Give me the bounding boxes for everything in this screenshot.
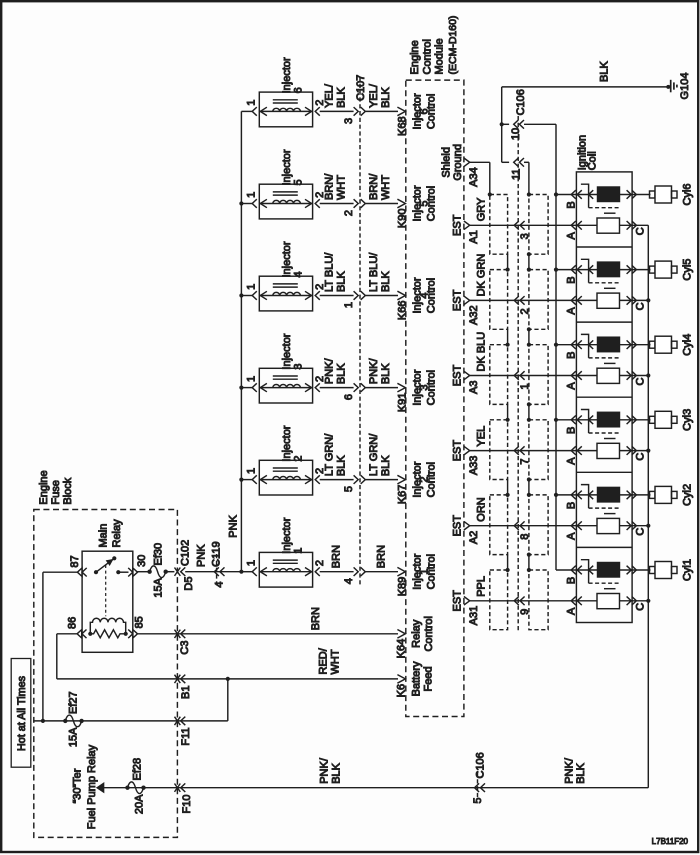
svg-text:Injector: Injector bbox=[281, 517, 293, 553]
svg-text:Cyl1: Cyl1 bbox=[682, 559, 694, 581]
wire PNK/BLK C107 to ECM bbox=[366, 357, 399, 387]
connector F11 at fuse block edge bbox=[175, 717, 193, 746]
svg-text:A32: A32 bbox=[468, 305, 480, 325]
svg-text:Feed: Feed bbox=[423, 666, 435, 691]
svg-text:B1: B1 bbox=[180, 686, 192, 699]
svg-text:K66: K66 bbox=[397, 301, 409, 321]
connector B1 at fuse block edge bbox=[175, 675, 193, 699]
svg-text:BLK: BLK bbox=[336, 363, 348, 384]
svg-text:“30”Ter: “30”Ter bbox=[72, 768, 84, 803]
svg-text:Injector: Injector bbox=[281, 333, 293, 369]
svg-text:Cyl6: Cyl6 bbox=[682, 183, 694, 205]
wire pin 11 shield drain bbox=[528, 162, 530, 194]
connector C106 pin 7 bbox=[514, 446, 531, 464]
node C rail junction bbox=[646, 524, 650, 528]
shield (ECM side) EST row 3 bbox=[490, 345, 508, 405]
svg-text:A: A bbox=[566, 382, 578, 390]
svg-text:EST: EST bbox=[452, 365, 464, 387]
svg-text:BLK: BLK bbox=[380, 271, 392, 292]
svg-text:C: C bbox=[635, 377, 647, 385]
svg-text:BLK: BLK bbox=[380, 86, 392, 107]
node C rail junction bbox=[646, 373, 650, 377]
svg-text:Battery: Battery bbox=[411, 661, 423, 696]
figure number L7B11F20 bbox=[652, 837, 689, 846]
wire YEL EST A33 to ignition coil bbox=[470, 426, 649, 451]
svg-text:Ef27: Ef27 bbox=[68, 691, 80, 714]
connector C107 pin 4 bbox=[343, 567, 365, 584]
svg-text:B: B bbox=[566, 577, 578, 584]
svg-text:Relay: Relay bbox=[411, 619, 423, 648]
terminal 30 bbox=[116, 555, 148, 577]
node injector rail junction row 3 bbox=[239, 386, 243, 390]
terminal 86 bbox=[67, 617, 87, 638]
svg-text:Injector: Injector bbox=[281, 241, 293, 277]
svg-text:1: 1 bbox=[245, 284, 257, 290]
connector C107 pin 2 bbox=[343, 199, 365, 216]
coil unit divider bbox=[576, 396, 632, 398]
svg-text:C: C bbox=[635, 227, 647, 235]
svg-text:Injector: Injector bbox=[281, 425, 293, 461]
svg-text:BLK: BLK bbox=[336, 86, 348, 107]
ECM pin A3 EST bbox=[452, 365, 481, 394]
svg-text:Coil: Coil bbox=[587, 151, 599, 170]
svg-text:BLK: BLK bbox=[336, 271, 348, 292]
svg-text:BLK: BLK bbox=[336, 455, 348, 476]
node C rail junction bbox=[646, 298, 650, 302]
injector 2 bbox=[241, 425, 326, 495]
svg-text:85: 85 bbox=[133, 616, 145, 628]
svg-text:BRN: BRN bbox=[376, 545, 388, 568]
shield chain jumpers bbox=[506, 252, 532, 272]
svg-text:6: 6 bbox=[343, 394, 355, 400]
wire 86 to B1 row bbox=[57, 634, 77, 679]
label Engine Control Module (ECM-D160) bbox=[409, 16, 459, 75]
spark plug Cyl2 bbox=[650, 484, 694, 506]
terminal 87 bbox=[69, 555, 87, 576]
svg-text:15A: 15A bbox=[68, 727, 80, 747]
svg-text:Control: Control bbox=[426, 370, 438, 405]
svg-text:GRY: GRY bbox=[476, 197, 488, 221]
svg-text:YEL/: YEL/ bbox=[368, 83, 380, 108]
wire PNK D5 to C119 bbox=[185, 544, 241, 572]
ignition coil primary Cyl3 (pin B) bbox=[556, 410, 651, 439]
wire BRN injector 1 to C107 bbox=[320, 545, 354, 572]
svg-text:Injector: Injector bbox=[281, 57, 293, 93]
ECM pin A31 EST bbox=[452, 590, 481, 626]
injector 6 bbox=[241, 57, 326, 127]
svg-text:L7B11F20: L7B11F20 bbox=[652, 837, 689, 846]
svg-text:PNK: PNK bbox=[195, 544, 207, 567]
ECM pin A1 EST bbox=[452, 214, 481, 243]
ECM pin K90 Injector 5 Control bbox=[397, 185, 438, 228]
ECM pin K6 Battery Feed bbox=[396, 661, 435, 697]
svg-text:K67: K67 bbox=[397, 485, 409, 505]
shield chain jumpers bbox=[506, 553, 532, 573]
spark plug Cyl1 bbox=[650, 559, 694, 581]
svg-text:30: 30 bbox=[136, 555, 148, 567]
svg-text:D5: D5 bbox=[183, 577, 195, 591]
svg-text:2: 2 bbox=[343, 210, 355, 216]
connector C107 pin 1 bbox=[343, 291, 365, 308]
node ground rail junction Cyl2 bbox=[554, 493, 558, 497]
svg-text:B: B bbox=[566, 502, 578, 509]
svg-text:K6: K6 bbox=[396, 684, 408, 697]
connector C107 pin 6 bbox=[343, 383, 365, 400]
svg-text:Engine: Engine bbox=[38, 470, 50, 504]
wire 85 to C3 / relay control bbox=[138, 633, 399, 635]
svg-text:C3: C3 bbox=[179, 641, 191, 655]
node injector rail junction row 5 bbox=[239, 201, 243, 205]
svg-text:YEL/: YEL/ bbox=[324, 83, 336, 108]
shield chain jumpers bbox=[506, 327, 532, 347]
ignition coil secondary Cyl4 (pin A to C) bbox=[566, 368, 647, 389]
svg-text:LT BLU/: LT BLU/ bbox=[368, 252, 380, 292]
wire DK BLU EST A3 to ignition coil bbox=[470, 332, 649, 376]
wire RED/WHT B1 row to K6 bbox=[57, 677, 398, 681]
svg-text:BRN: BRN bbox=[331, 545, 343, 568]
svg-text:C102: C102 bbox=[180, 540, 192, 566]
svg-text:Cyl3: Cyl3 bbox=[682, 409, 694, 431]
coil unit divider bbox=[576, 321, 632, 323]
wire F11 riser to B1 row bbox=[227, 679, 229, 721]
connector C119 pin 4 bbox=[211, 541, 226, 588]
svg-text:Cyl5: Cyl5 bbox=[682, 259, 694, 281]
svg-text:F10: F10 bbox=[181, 795, 193, 814]
wire GRY EST A1 to ignition coil bbox=[470, 197, 649, 225]
svg-text:B: B bbox=[566, 352, 578, 359]
node ground rail junction Cyl6 bbox=[554, 192, 558, 196]
coil unit divider bbox=[576, 471, 632, 473]
connector C3 at fuse block edge bbox=[175, 630, 192, 655]
label BRN relay control bbox=[310, 607, 322, 630]
wire LT GRN/BLK C107 to ECM bbox=[366, 433, 399, 480]
shield chain jumpers bbox=[506, 402, 532, 422]
shield chain jumpers bbox=[506, 477, 532, 497]
svg-text:4: 4 bbox=[343, 578, 355, 584]
relay coil and resistor bbox=[88, 618, 128, 638]
svg-text:C119: C119 bbox=[211, 541, 223, 566]
wire DK GRN EST A32 to ignition coil bbox=[470, 254, 649, 301]
spark plug Cyl5 bbox=[650, 259, 694, 281]
ignition coil secondary Cyl1 (pin A to C) bbox=[566, 594, 647, 615]
ignition coil primary Cyl1 (pin B) bbox=[556, 560, 651, 589]
svg-text:Cyl2: Cyl2 bbox=[682, 484, 694, 506]
svg-text:K90: K90 bbox=[397, 209, 409, 229]
svg-text:DK GRN: DK GRN bbox=[476, 254, 488, 297]
fuse Ef27 15A bbox=[63, 691, 84, 747]
ignition coil primary Cyl4 (pin B) bbox=[556, 334, 651, 363]
svg-text:BLK: BLK bbox=[380, 363, 392, 384]
svg-text:EST: EST bbox=[452, 214, 464, 236]
svg-text:EST: EST bbox=[452, 440, 464, 462]
wire LT GRN/BLK injector 2 to C107 bbox=[320, 433, 354, 480]
label Engine Fuse Block bbox=[38, 470, 74, 504]
ignition coil secondary Cyl5 (pin A to C) bbox=[566, 293, 647, 314]
connector C106 pin 10 bbox=[502, 89, 556, 140]
wire YEL/BLK C107 to ECM bbox=[366, 83, 399, 111]
svg-text:11: 11 bbox=[510, 169, 522, 180]
label RED/WHT bbox=[318, 647, 342, 674]
spark plug Cyl6 bbox=[650, 183, 694, 205]
node injector rail junction row 4 bbox=[239, 293, 243, 297]
wire coil C rail to PNK/BLK feed bbox=[647, 225, 649, 787]
svg-text:K89: K89 bbox=[397, 577, 409, 597]
shield (coil side) EST row 4 bbox=[529, 420, 548, 480]
ground G104 bbox=[666, 73, 691, 100]
svg-text:A34: A34 bbox=[468, 167, 480, 187]
svg-text:C: C bbox=[635, 453, 647, 461]
svg-text:F11: F11 bbox=[180, 728, 192, 746]
svg-text:Main: Main bbox=[98, 524, 110, 548]
svg-text:Relay: Relay bbox=[111, 519, 123, 548]
node injector rail junction row 2 bbox=[239, 478, 243, 482]
svg-text:A: A bbox=[566, 231, 578, 239]
svg-text:Control: Control bbox=[426, 94, 438, 129]
svg-text:BRN: BRN bbox=[310, 607, 322, 630]
coil unit divider bbox=[576, 246, 632, 248]
svg-text:87: 87 bbox=[69, 555, 81, 567]
node injector rail junction row 1 bbox=[239, 570, 243, 574]
svg-text:2: 2 bbox=[293, 455, 305, 461]
spark plug Cyl4 bbox=[650, 334, 694, 356]
connector C106 pin 1 bbox=[514, 371, 531, 389]
svg-text:20A: 20A bbox=[134, 794, 146, 814]
svg-text:RED/: RED/ bbox=[318, 647, 330, 674]
svg-text:1: 1 bbox=[245, 192, 257, 198]
svg-text:DK BLU: DK BLU bbox=[476, 332, 488, 372]
label Ignition Coil bbox=[577, 135, 599, 170]
svg-text:B: B bbox=[566, 201, 578, 208]
wire hot feed to F11 (row y=720.9) bbox=[33, 720, 228, 722]
svg-text:A2: A2 bbox=[468, 531, 480, 544]
svg-text:PNK: PNK bbox=[228, 514, 240, 537]
node ground rail junction Cyl3 bbox=[554, 418, 558, 422]
wire branch up to relay terminal 87 bbox=[43, 572, 78, 721]
svg-text:PPL: PPL bbox=[476, 576, 488, 597]
svg-text:(ECM-D160): (ECM-D160) bbox=[447, 16, 459, 75]
connector C106 pin 11 bbox=[502, 158, 529, 180]
label PNK at injector rail bbox=[228, 514, 240, 537]
Engine Fuse Block dashed box bbox=[34, 510, 178, 838]
svg-text:BLK: BLK bbox=[599, 61, 611, 82]
svg-text:5: 5 bbox=[343, 486, 355, 492]
connector line C107 bbox=[359, 77, 361, 585]
ECM pin K89 Injector 1 Control bbox=[397, 553, 438, 596]
svg-text:15A: 15A bbox=[153, 577, 165, 597]
connector C107 pin 3 bbox=[343, 75, 367, 124]
svg-text:Hot at All Times: Hot at All Times bbox=[16, 675, 28, 751]
svg-text:Control: Control bbox=[426, 554, 438, 589]
svg-text:EST: EST bbox=[452, 289, 464, 311]
svg-text:YEL: YEL bbox=[476, 426, 488, 447]
svg-text:1: 1 bbox=[293, 548, 305, 554]
svg-text:K91: K91 bbox=[397, 393, 409, 413]
svg-text:LT GRN/: LT GRN/ bbox=[324, 433, 336, 476]
svg-text:WHT: WHT bbox=[336, 175, 348, 200]
shield (coil side) EST row 6 bbox=[529, 570, 548, 630]
svg-text:Module: Module bbox=[434, 38, 446, 74]
ECM pin A33 EST bbox=[452, 440, 481, 476]
wire BRN C107 to ECM bbox=[366, 545, 399, 572]
connector C107 pin 5 bbox=[343, 475, 365, 492]
svg-text:A: A bbox=[566, 607, 578, 615]
label Main Relay bbox=[98, 519, 124, 548]
svg-text:C: C bbox=[635, 528, 647, 536]
svg-text:Ef28: Ef28 bbox=[131, 758, 143, 781]
svg-text:3: 3 bbox=[343, 118, 355, 124]
node BLK junction bbox=[500, 122, 504, 126]
svg-text:C: C bbox=[635, 603, 647, 611]
svg-text:PNK/: PNK/ bbox=[324, 357, 336, 384]
node ground rail junction Cyl4 bbox=[554, 343, 558, 347]
svg-text:G104: G104 bbox=[679, 73, 691, 100]
shield (ECM side) EST row 5 bbox=[490, 495, 508, 555]
ECM pin K68 Injector 6 Control bbox=[397, 93, 438, 136]
svg-text:A33: A33 bbox=[468, 456, 480, 476]
ignition coil secondary Cyl3 (pin A to C) bbox=[566, 443, 647, 464]
svg-text:2: 2 bbox=[314, 560, 326, 566]
svg-text:B: B bbox=[566, 276, 578, 283]
shield (ECM side) EST row 4 bbox=[490, 420, 508, 480]
node ground rail junction Cyl5 bbox=[554, 268, 558, 272]
connector line C106 bbox=[517, 116, 519, 631]
node C rail junction bbox=[646, 599, 650, 603]
ECM pin K91 Injector 3 Control bbox=[397, 369, 438, 412]
svg-text:Control: Control bbox=[423, 616, 435, 651]
svg-text:BRN/: BRN/ bbox=[368, 173, 380, 200]
svg-text:5: 5 bbox=[293, 179, 305, 185]
wire PPL EST A31 to ignition coil bbox=[470, 576, 649, 601]
svg-text:BLK: BLK bbox=[331, 762, 343, 783]
node shield drain connections bbox=[488, 192, 531, 196]
svg-text:WHT: WHT bbox=[380, 175, 392, 200]
terminal 85 bbox=[128, 616, 145, 638]
ECM dashed box (Engine Control Module) bbox=[406, 80, 464, 716]
svg-text:Shield: Shield bbox=[441, 147, 453, 178]
svg-text:A3: A3 bbox=[468, 381, 480, 394]
connector C106 pin 2 bbox=[514, 296, 531, 314]
wire LT BLU/BLK injector 4 to C107 bbox=[320, 252, 354, 296]
shield (ECM side) EST row 1 bbox=[490, 195, 508, 255]
node hot feed junction bbox=[41, 719, 45, 723]
ECM pin A34 Shield Ground bbox=[441, 144, 481, 187]
svg-text:1: 1 bbox=[245, 376, 257, 382]
svg-text:K68: K68 bbox=[397, 116, 409, 136]
ECM pin K67 Injector 2 Control bbox=[397, 461, 438, 504]
injector 3 bbox=[241, 333, 326, 403]
svg-text:A: A bbox=[566, 532, 578, 540]
svg-text:3: 3 bbox=[293, 363, 305, 369]
svg-text:A: A bbox=[566, 307, 578, 315]
Ignition Coil box bbox=[576, 172, 632, 623]
fuse Ef28 20A bbox=[125, 758, 145, 814]
node C rail junction bbox=[646, 449, 650, 453]
svg-text:Cyl4: Cyl4 bbox=[682, 334, 694, 356]
label "30"Ter Fuel Pump Relay bbox=[72, 744, 98, 829]
connector C106 pin 5 bbox=[472, 752, 487, 803]
svg-text:C: C bbox=[635, 302, 647, 310]
ECM pin A2 EST bbox=[452, 515, 481, 544]
ECM pin A32 EST bbox=[452, 289, 481, 325]
wire LT BLU/BLK C107 to ECM bbox=[366, 252, 399, 296]
svg-text:5: 5 bbox=[472, 798, 484, 804]
ignition coil primary Cyl6 (pin B) bbox=[556, 184, 651, 213]
svg-text:Control: Control bbox=[426, 186, 438, 221]
svg-text:Ground: Ground bbox=[452, 144, 464, 181]
coil unit divider bbox=[576, 546, 632, 548]
svg-text:Control: Control bbox=[422, 39, 434, 74]
ignition coil secondary Cyl6 (pin A to C) bbox=[566, 218, 647, 239]
svg-text:PNK/: PNK/ bbox=[564, 757, 576, 784]
svg-text:A: A bbox=[566, 457, 578, 465]
ignition coil secondary Cyl2 (pin A to C) bbox=[566, 518, 647, 539]
relay actuation dashed link bbox=[105, 565, 107, 616]
svg-text:Control: Control bbox=[426, 462, 438, 497]
spark plug Cyl3 bbox=[650, 409, 694, 431]
label box "Hot at All Times" bbox=[11, 659, 31, 768]
ignition coil primary Cyl2 (pin B) bbox=[556, 485, 651, 514]
connector D5 / C102 at fuse block edge bbox=[166, 540, 195, 591]
svg-text:LT GRN/: LT GRN/ bbox=[368, 433, 380, 476]
svg-text:10: 10 bbox=[510, 128, 522, 140]
wire BRN/WHT injector 5 to C107 bbox=[320, 173, 354, 204]
svg-text:EST: EST bbox=[452, 515, 464, 537]
terminal arrow from "30" Fuel Pump Relay bbox=[97, 783, 103, 792]
svg-text:PNK/: PNK/ bbox=[319, 757, 331, 784]
svg-text:K64: K64 bbox=[396, 639, 408, 659]
connector C106 pin 9 bbox=[514, 597, 531, 615]
connector C106 pin 3 bbox=[514, 221, 531, 239]
wire YEL/BLK injector 6 to C107 bbox=[320, 83, 354, 111]
svg-text:6: 6 bbox=[293, 87, 305, 93]
svg-text:B: B bbox=[566, 427, 578, 434]
svg-text:Control: Control bbox=[426, 278, 438, 313]
label PNK/BLK (right) bbox=[564, 757, 588, 784]
connector F10 at fuse block edge bbox=[175, 783, 194, 813]
svg-text:1: 1 bbox=[343, 302, 355, 308]
svg-text:PNK/: PNK/ bbox=[368, 357, 380, 384]
shield (coil side) EST row 3 bbox=[529, 345, 548, 405]
svg-text:Fuse: Fuse bbox=[50, 480, 62, 504]
svg-text:1: 1 bbox=[245, 560, 257, 566]
svg-text:C107: C107 bbox=[355, 75, 367, 101]
injector feed rail bbox=[240, 111, 242, 571]
injector 5 bbox=[241, 149, 326, 219]
relay switch contact arm bbox=[94, 556, 117, 574]
svg-text:C106: C106 bbox=[475, 752, 487, 778]
ECM pin K66 Injector 4 Control bbox=[397, 277, 438, 320]
svg-text:A31: A31 bbox=[468, 606, 480, 626]
svg-text:Fuel Pump Relay: Fuel Pump Relay bbox=[86, 744, 98, 829]
svg-text:1: 1 bbox=[245, 100, 257, 106]
shield (ECM side) EST row 6 bbox=[490, 570, 508, 630]
wire PNK/BLK injector 3 to C107 bbox=[320, 357, 354, 387]
wire ORN EST A2 to ignition coil bbox=[470, 497, 649, 526]
connector C106 pin 8 bbox=[514, 521, 531, 539]
svg-text:C106: C106 bbox=[515, 89, 527, 115]
wire PNK/BLK F10 row (y=787.7) bbox=[104, 787, 649, 789]
label PNK/BLK (left) bbox=[319, 757, 343, 784]
shield (ECM side) EST row 2 bbox=[490, 270, 508, 330]
svg-text:EST: EST bbox=[452, 590, 464, 612]
svg-text:86: 86 bbox=[67, 617, 79, 629]
wire A34 shield drain bbox=[469, 162, 490, 194]
injector 4 bbox=[241, 241, 326, 311]
svg-text:Engine: Engine bbox=[409, 40, 421, 74]
svg-text:A1: A1 bbox=[468, 230, 480, 243]
wire BRN/WHT C107 to ECM bbox=[366, 173, 399, 204]
wire ground rail to coil B pins bbox=[555, 124, 557, 570]
